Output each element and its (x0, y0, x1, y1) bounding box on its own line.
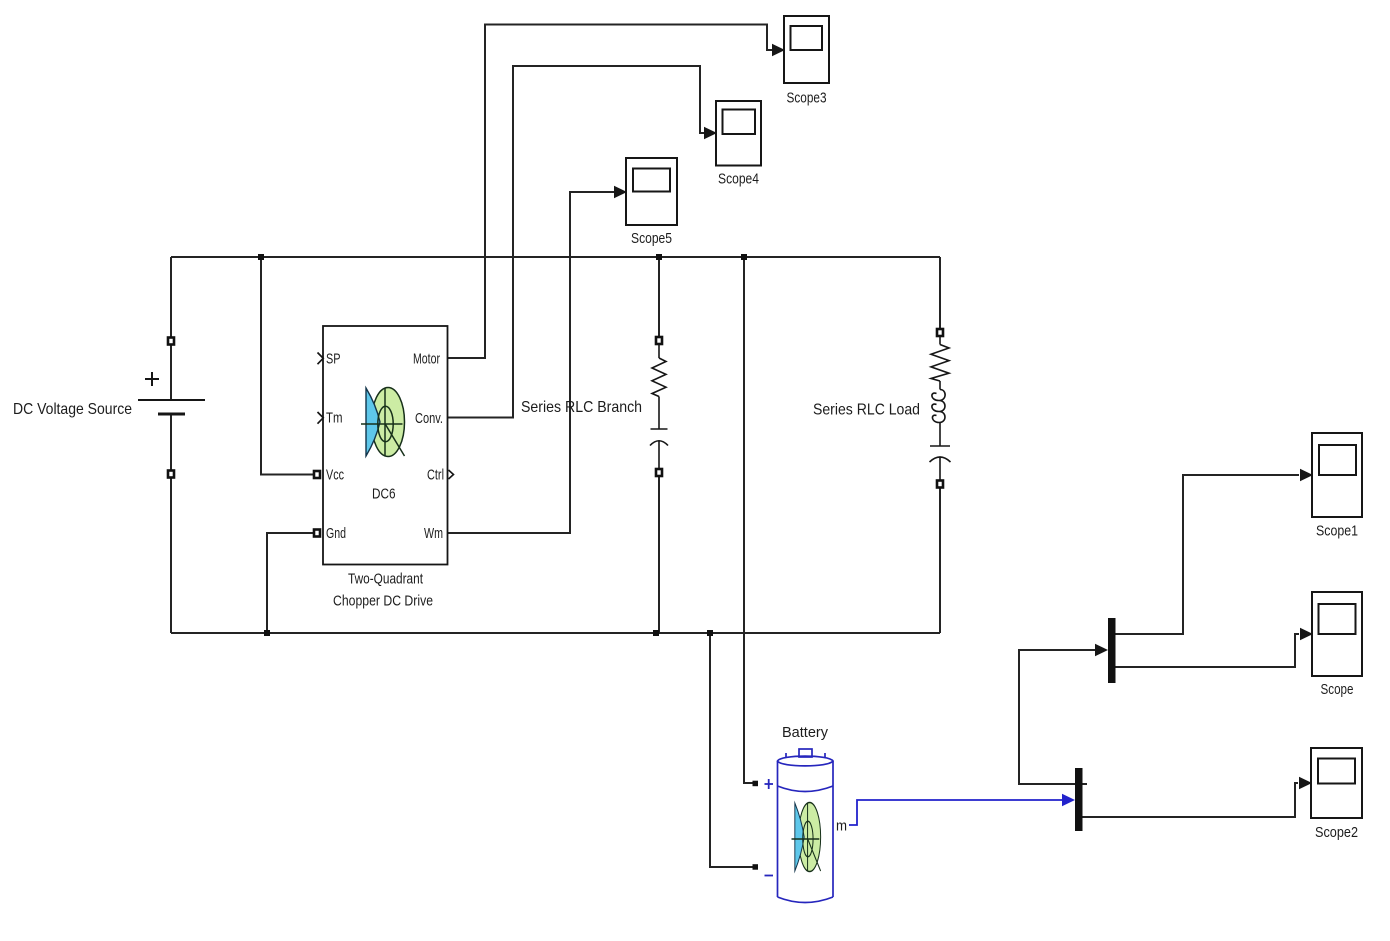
battery plus sign (765, 779, 774, 876)
wire: Vcc branch (261, 257, 314, 475)
input chevron Tm (318, 412, 324, 424)
wire: upper demux out2 to Scope (1116, 634, 1300, 667)
svg-text:Scope4: Scope4 (718, 171, 759, 188)
arrowhead into Scope (1300, 628, 1313, 640)
block Scope3 body (784, 16, 829, 83)
port DC source top (168, 338, 174, 345)
svg-text:DC6: DC6 (372, 486, 396, 503)
wire: lower demux out2 to Scope2 (1083, 783, 1299, 817)
Scope4 screen (723, 110, 756, 135)
block Two-Quadrant Chopper DC Drive (323, 326, 448, 565)
DC Voltage Source symbol V1 (138, 372, 205, 414)
wire: top bus to battery plus (744, 257, 753, 783)
port Vcc (314, 471, 320, 478)
arrowhead into Scope3 (772, 44, 785, 56)
svg-text:Wm: Wm (424, 525, 443, 542)
capacitor C branch bottom plate arc (650, 441, 668, 446)
svg-text:Ctrl: Ctrl (427, 467, 444, 484)
wire: RLC branch top (658, 257, 660, 338)
DC source positive plate (138, 399, 205, 401)
block Scope body (1312, 592, 1362, 676)
output chevron Ctrl (449, 470, 454, 479)
svg-text:Scope1: Scope1 (1316, 523, 1358, 540)
svg-text:Series RLC Load: Series RLC Load (813, 402, 920, 419)
svg-text:Motor: Motor (413, 351, 440, 368)
svg-text:Scope3: Scope3 (787, 90, 827, 107)
top rim ellipse (778, 756, 834, 766)
junction dot top bus at Vcc branch (258, 254, 264, 260)
port Gnd (314, 530, 320, 537)
block Scope2 body (1311, 748, 1362, 818)
Scope2 screen (1318, 759, 1355, 784)
blue arrowhead into lower demux (1062, 794, 1075, 806)
svg-text:Gnd: Gnd (326, 525, 346, 542)
Scope3 screen (791, 26, 823, 50)
wire: Conv to Scope4 (448, 66, 705, 418)
Series RLC Load component (930, 336, 951, 481)
wire: lower demux out1 back to upper demux input (1019, 650, 1095, 784)
port RLC load bottom (937, 481, 943, 488)
wire stub (939, 423, 941, 447)
capacitor C load bottom plate arc (930, 457, 951, 462)
svg-text:SP: SP (326, 351, 341, 368)
svg-text:Chopper DC Drive: Chopper DC Drive (333, 593, 433, 610)
svg-text:Conv.: Conv. (415, 410, 443, 427)
wire stub mid (658, 397, 660, 430)
port battery minus (753, 864, 759, 870)
wire: Wm to Scope5 (448, 192, 615, 533)
wire: Gnd branch (267, 533, 314, 633)
wire: Motor to Scope3 (448, 25, 773, 359)
wire stub (939, 381, 941, 390)
svg-text:Scope: Scope (1321, 681, 1354, 698)
arrowhead into Scope1 (1300, 469, 1313, 481)
junction dot top bus at RLC branch (656, 254, 662, 260)
svg-text:DC Voltage Source: DC Voltage Source (13, 401, 132, 418)
port RLC branch bottom (656, 469, 662, 476)
Scope screen (1319, 604, 1356, 634)
arrowhead into Scope2 (1299, 777, 1312, 789)
arrowhead into Scope4 (704, 127, 717, 139)
wire battery m to lower demux (blue) (849, 800, 1062, 825)
DC source plus sign (145, 378, 159, 380)
Scope5 screen (633, 169, 670, 192)
svg-text:Two-Quadrant: Two-Quadrant (348, 571, 424, 588)
top button terminal (799, 749, 812, 757)
wire stub top (939, 336, 941, 345)
upper body arc (778, 786, 834, 792)
port RLC branch top (656, 337, 662, 344)
svg-text:Scope5: Scope5 (631, 230, 672, 247)
wire stub top (658, 344, 660, 358)
bottom arc (778, 897, 834, 903)
port battery plus (753, 781, 759, 787)
svg-text:Vcc: Vcc (326, 467, 344, 484)
battery minus sign (765, 875, 774, 877)
port DC source bottom (168, 471, 174, 478)
junction dot top bus at battery plus branch (741, 254, 747, 260)
Battery block (blue) (778, 749, 834, 903)
icon DC6 motor (361, 388, 405, 457)
junction dot bottom bus at battery minus branch (707, 630, 713, 636)
input chevron SP (318, 353, 324, 365)
svg-text:m: m (836, 818, 847, 835)
svg-text:Tm: Tm (326, 410, 343, 427)
wire stub bottom (939, 457, 941, 481)
Scope1 screen (1319, 445, 1356, 475)
wire: bottom bus to battery minus (710, 633, 753, 867)
wire: top bus (171, 256, 940, 258)
wire: RLC load bottom to bus (939, 487, 941, 633)
wire: DC source plate to bottom port (170, 345, 172, 400)
wire: upper demux out1 to Scope1 (1116, 475, 1300, 634)
battery cylinder body (778, 761, 834, 897)
block Scope4 body (716, 101, 761, 166)
capacitor C branch top plate (651, 428, 668, 430)
svg-text:Scope2: Scope2 (1315, 824, 1358, 841)
resistor R branch (652, 358, 666, 397)
wire: RLC load top (939, 257, 941, 330)
wire stub bottom (658, 441, 660, 470)
Series RLC Branch component (650, 344, 668, 470)
battery icon motor (791, 803, 820, 872)
block Demux1 (upper demux bar) (1108, 618, 1116, 683)
wire: DC source bottom to bus (170, 477, 172, 633)
arrowhead into Scope5 (614, 186, 627, 198)
svg-text:Series RLC Branch: Series RLC Branch (521, 399, 642, 416)
block Demux2 (lower demux bar) (1075, 768, 1083, 831)
port RLC load top (937, 329, 943, 336)
arrowhead into upper demux (1095, 644, 1108, 656)
wire: RLC branch bottom to bus (658, 476, 660, 633)
block Scope5 body (626, 158, 677, 225)
wire: bottom bus (171, 632, 940, 634)
junction dot bottom bus at RLC branch (653, 630, 659, 636)
inductor L load (932, 390, 945, 423)
wire: DC source top vertical (170, 257, 172, 341)
junction dot bottom bus at Gnd branch (264, 630, 270, 636)
svg-text:Battery: Battery (782, 724, 828, 741)
resistor R load (931, 345, 949, 382)
capacitor C load top plate (930, 445, 950, 447)
DC source negative plate (158, 413, 185, 416)
block Scope1 body (1312, 433, 1362, 517)
